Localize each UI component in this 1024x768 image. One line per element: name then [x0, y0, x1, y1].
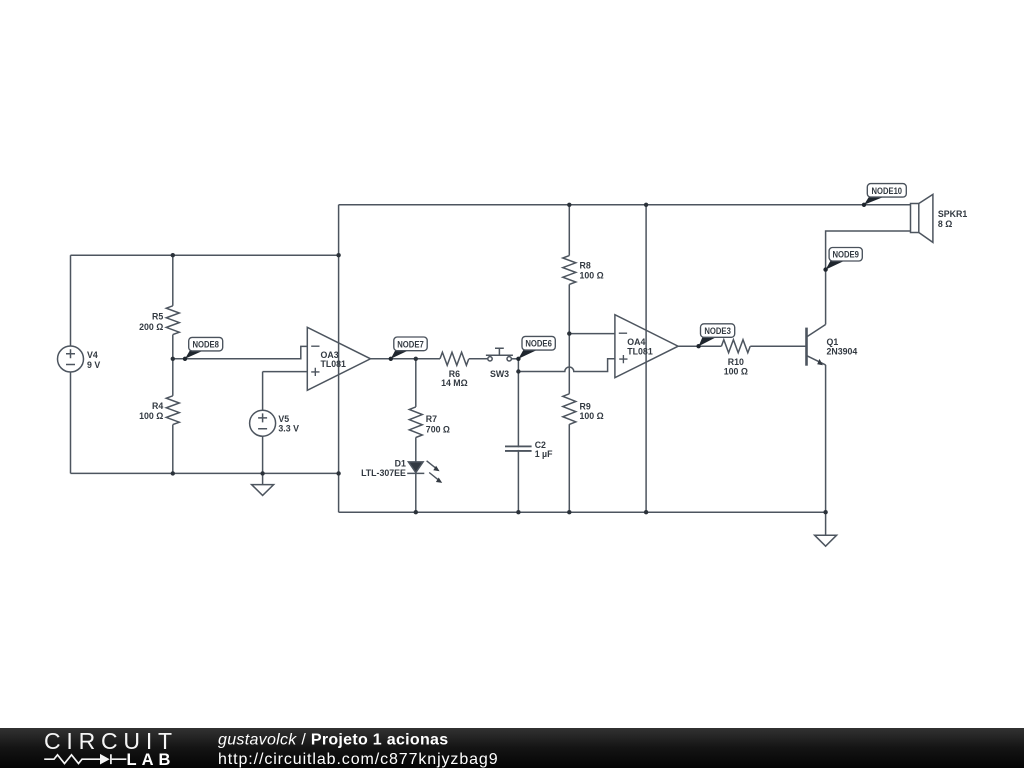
junction R8 top [567, 203, 571, 207]
svg-text:http://circuitlab.com/c877knjy: http://circuitlab.com/c877knjyzbag9 [218, 751, 499, 768]
svg-text:R7: R7 [426, 414, 437, 424]
wire R8 bottom to R9 top [568, 284, 570, 393]
svg-text:V5: V5 [278, 414, 289, 424]
wire top rail [339, 204, 911, 206]
svg-text:1 µF: 1 µF [535, 449, 553, 459]
junction R8 bottom tap [567, 331, 571, 335]
wire mid vertical through OA4 [645, 205, 647, 512]
wire box left edge [338, 205, 340, 512]
wire V5 to OA3 non-inverting input [263, 371, 308, 373]
wire R5 top lead [172, 255, 174, 306]
wire R7 top lead [415, 359, 417, 407]
wire V5 top lead [262, 372, 264, 411]
svg-text:OA4: OA4 [627, 337, 645, 347]
transistor Q1 [807, 325, 826, 366]
ground (Q1 emitter) [815, 512, 837, 546]
svg-text:NODE6: NODE6 [525, 339, 552, 349]
svg-text:SW3: SW3 [490, 369, 509, 379]
junction R4 bottom [171, 471, 175, 475]
svg-text:2N3904: 2N3904 [827, 347, 858, 357]
svg-text:LTL-307EE: LTL-307EE [361, 468, 406, 478]
junction D1 bottom [414, 510, 418, 514]
junction node B (box left / left rail) [336, 253, 340, 257]
wire R4 bottom lead [172, 425, 174, 474]
CircuitLab logo wordmark [44, 728, 178, 768]
voltage source V5 [250, 410, 276, 436]
svg-text:R5: R5 [152, 311, 163, 321]
wire OA4 output to R10 [678, 345, 721, 347]
resistor R4 [166, 396, 179, 425]
wire R8-R9 tap to OA4 inverting input [569, 333, 615, 335]
junction NODE7/R7 [414, 357, 418, 361]
svg-text:8 Ω: 8 Ω [938, 219, 952, 229]
svg-text:100 Ω: 100 Ω [724, 367, 748, 377]
resistor R8 [563, 256, 576, 285]
wire R6 to SW3 [469, 358, 488, 360]
diode D1 (LED) [407, 461, 442, 483]
svg-text:TL081: TL081 [321, 359, 347, 369]
svg-text:Q1: Q1 [827, 337, 839, 347]
node NODE3 [696, 324, 734, 349]
wire SW3 to NODE6 [511, 358, 518, 360]
svg-text:SPKR1: SPKR1 [938, 209, 967, 219]
wire R7 to D1 [415, 437, 417, 462]
svg-text:100 Ω: 100 Ω [139, 411, 163, 421]
node NODE10 [862, 184, 907, 207]
wire R5-R4 middle (node8 column) [172, 335, 174, 396]
resistor R6 [440, 352, 469, 365]
junction V5 ground [260, 471, 264, 475]
op-amp OA3 [307, 327, 370, 390]
junction mid vertical bottom [644, 510, 648, 514]
junction R9 bottom [567, 510, 571, 514]
wire OA3 output to R6 [371, 358, 441, 360]
svg-text:R8: R8 [580, 260, 591, 270]
wire R9 bottom lead [568, 424, 570, 512]
node NODE8 [183, 337, 223, 361]
svg-text:14 MΩ: 14 MΩ [441, 378, 468, 388]
node NODE7 [389, 337, 428, 361]
op-amp OA3 +/- marks [311, 346, 319, 376]
voltage source V4 [58, 346, 84, 372]
svg-text:9 V: 9 V [87, 360, 100, 370]
svg-text:3.3 V: 3.3 V [278, 423, 299, 433]
resistor R5 [166, 306, 179, 335]
wire R10 to Q1 base [750, 345, 806, 347]
wire Q1 collector to speaker [826, 231, 911, 325]
svg-text:LAB: LAB [127, 751, 176, 768]
switch SW3 [486, 348, 513, 361]
op-amp OA4 +/- marks [619, 333, 628, 363]
wire box bottom rail [339, 511, 826, 513]
wire V5 bottom lead [262, 436, 264, 473]
wire NODE6 to OA4 non-inverting input with hop over R8-R9 column [518, 359, 615, 372]
wire V4 top lead [70, 255, 72, 346]
svg-text:NODE9: NODE9 [832, 250, 859, 260]
svg-text:gustavolck / Projeto 1 acionas: gustavolck / Projeto 1 acionas [218, 731, 448, 748]
junction C2 bottom [516, 510, 520, 514]
svg-text:700 Ω: 700 Ω [426, 424, 450, 434]
wire D1 bottom lead [415, 473, 417, 512]
node NODE9 [823, 248, 862, 272]
wire NODE6 column down to bottom rail [517, 359, 519, 512]
wire left ground rail [71, 472, 339, 474]
junction emitter / bottom rail [823, 510, 827, 514]
svg-text:100 Ω: 100 Ω [580, 271, 604, 281]
svg-text:V4: V4 [87, 350, 98, 360]
resistor R7 [409, 407, 422, 438]
junction mid vertical top [644, 203, 648, 207]
wire Q1 emitter down to bottom rail [825, 365, 827, 512]
svg-text:NODE7: NODE7 [397, 339, 424, 349]
resistor R9 [563, 394, 576, 425]
junction NODE6 tap [516, 369, 520, 373]
wire V4 bottom lead [70, 372, 72, 473]
speaker SPKR1 [911, 194, 933, 242]
wire R8 top lead [568, 205, 570, 256]
svg-text:R4: R4 [152, 401, 163, 411]
svg-text:TL081: TL081 [627, 346, 653, 356]
capacitor C2 [504, 359, 533, 451]
svg-text:NODE3: NODE3 [704, 326, 731, 336]
svg-text:200 Ω: 200 Ω [139, 322, 163, 332]
svg-text:100 Ω: 100 Ω [580, 411, 604, 421]
svg-text:NODE10: NODE10 [872, 186, 903, 196]
wire NODE8 to OA3 inverting input [173, 346, 307, 358]
footer bar [0, 728, 1024, 768]
wire left top rail [71, 254, 339, 256]
junction node A (R5 top) [171, 253, 175, 257]
junction left rail / box [336, 471, 340, 475]
svg-text:NODE8: NODE8 [192, 340, 219, 350]
resistor R10 [721, 340, 750, 353]
node NODE6 [516, 336, 555, 361]
junction NODE8 [171, 357, 175, 361]
ground (V5) [252, 473, 274, 495]
svg-text:R10: R10 [728, 357, 744, 367]
CircuitLab logo resistor-diode symbol [44, 754, 126, 765]
op-amp OA4 [615, 315, 678, 378]
